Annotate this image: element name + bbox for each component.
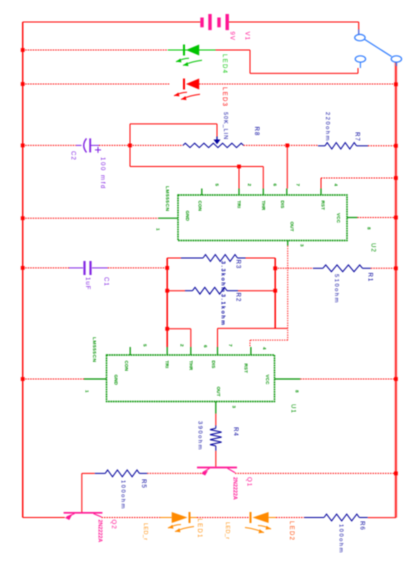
svg-text:THR: THR: [188, 361, 193, 371]
resistor R6 lead left: [304, 517, 324, 519]
resistor R4 lead top: [215, 426, 217, 429]
wire wiper loop right: [216, 124, 218, 137]
U2 pin stub THR: [262, 189, 264, 196]
svg-text:LED1: LED1: [196, 519, 202, 539]
svg-text:R5: R5: [140, 479, 147, 489]
svg-text:Q1: Q1: [245, 477, 252, 487]
resistor R6 lead right: [359, 517, 368, 519]
svg-text:R7: R7: [353, 132, 360, 142]
U2 pin number 7: [295, 184, 300, 187]
svg-text:510ohm: 510ohm: [333, 274, 339, 304]
U2 pin stub RST: [320, 189, 322, 196]
U1 pin label RST: [244, 364, 249, 374]
junction THR branch: [165, 327, 169, 331]
wire R5 to Q2 corner: [82, 472, 95, 474]
resistor R4 lead bottom: [215, 446, 217, 451]
wire LED4 to switch seg2: [249, 50, 251, 73]
svg-text:R2: R2: [234, 293, 241, 303]
U1 pin stub CON: [129, 347, 131, 355]
resistor R3 lead right: [238, 257, 246, 259]
svg-text:R3: R3: [234, 260, 241, 270]
svg-text:LED_r: LED_r: [224, 522, 230, 539]
wire Q1 collector to right bus: [235, 472, 396, 474]
wire U1 DIS branch riser: [217, 328, 219, 347]
wire R1 to right bus: [371, 267, 396, 269]
U2 refdes label U2: [369, 243, 376, 253]
junction bus-C1: [21, 266, 25, 270]
resistor R5 refdes label R5: [140, 479, 147, 489]
svg-text:2: 2: [247, 184, 252, 187]
wire right bus glow: [394, 62, 397, 518]
wire LED2 to R6: [276, 517, 304, 519]
resistor R2 value label 3.1kohm: [220, 294, 226, 326]
svg-text:DIS: DIS: [280, 201, 285, 209]
resistor R2 lead right: [227, 290, 238, 292]
svg-text:R1: R1: [366, 273, 373, 283]
wire R6 to right bus corner: [368, 517, 396, 519]
resistor R1 body: [323, 265, 363, 272]
U2 GND pin stub: [158, 217, 178, 219]
svg-text:LED2: LED2: [288, 521, 294, 541]
junction bus-U2 GND: [21, 216, 25, 220]
transistor Q2 model label 2N2222A: [97, 520, 103, 543]
junction R1-right bus: [394, 266, 398, 270]
resistor R5 value label 100ohm: [120, 480, 126, 510]
capacitor C2 refdes label C2: [69, 151, 76, 161]
wire C1 row from bus: [23, 267, 69, 269]
U2 pin number 6: [273, 184, 278, 187]
capacitor C1 value label 1uF: [84, 277, 91, 290]
op-amp/timer U1 LM555CN box: [107, 355, 275, 402]
svg-text:1: 1: [85, 390, 90, 393]
potentiometer R8 refdes label R8: [253, 127, 260, 137]
wire U2 RST to right bus: [321, 177, 396, 179]
wire R3 left: [167, 257, 181, 259]
junction R2-right rail: [273, 289, 277, 293]
svg-text:U1: U1: [289, 404, 296, 414]
wire LED3 row from bus: [23, 83, 170, 85]
LED D1 (orange): [168, 512, 194, 532]
resistor R1 value label 510ohm: [333, 274, 339, 304]
wire C2 to pot node: [99, 144, 130, 146]
U2 pin label GND: [185, 211, 190, 222]
wire left rail: [166, 258, 168, 347]
junction bus-LED4: [21, 48, 25, 52]
junction R7-right bus: [394, 144, 398, 148]
wire pot to DIS node: [244, 144, 319, 146]
wire RST drop: [249, 340, 251, 347]
svg-text:8: 8: [367, 227, 372, 230]
wire Q1 emitter to R5: [147, 472, 202, 474]
wire LED4 to switch seg4: [357, 68, 359, 73]
U1 part label LM555CN: [91, 337, 97, 362]
U1 GND pin stub: [84, 378, 107, 380]
resistor R2 body: [193, 287, 228, 294]
resistor R5 lead left: [95, 472, 106, 474]
wire U2 RST riser: [320, 178, 322, 189]
U2 pin label TRI: [236, 201, 241, 209]
junction U1 VCC-right bus: [394, 377, 398, 381]
U2 pin label OUT: [290, 222, 295, 232]
svg-text:LM555CN: LM555CN: [91, 337, 97, 362]
op-amp/timer U2 LM555CN box: [178, 195, 347, 241]
potentiometer R8 body: [183, 143, 244, 147]
wire TRI-THR feed: [130, 166, 263, 168]
U1 pin number 7: [228, 344, 233, 347]
resistor R7 lead left: [318, 145, 325, 147]
svg-text:100 mfd: 100 mfd: [99, 157, 106, 190]
svg-text:THR: THR: [261, 201, 266, 211]
LED D2 lead right: [269, 517, 276, 519]
U2 pin label THR: [261, 201, 266, 211]
potentiometer R8 model label 50K_LIN: [222, 112, 228, 140]
U2 pin label CON: [198, 201, 203, 212]
U1 OUT pin stub: [215, 402, 217, 414]
U1 pin number 6: [203, 345, 208, 348]
svg-text:6: 6: [203, 345, 208, 348]
U1 pin label DIS: [211, 361, 216, 369]
U1 VCC pin stub: [275, 378, 301, 380]
svg-text:RST: RST: [320, 201, 325, 211]
U1 pin number 2: [180, 344, 185, 347]
U2 pin number 5: [215, 184, 220, 187]
U1 pin number 1: [85, 390, 90, 393]
resistor R6 refdes label R6: [358, 521, 365, 531]
svg-text:4: 4: [334, 184, 339, 187]
resistor R5 lead right: [139, 472, 147, 474]
resistor R1 refdes label R1: [366, 273, 373, 283]
wire right rail: [274, 258, 276, 328]
LED D3 label LED3: [221, 87, 227, 107]
svg-text:5: 5: [143, 344, 148, 347]
wire bottom left corner: [23, 517, 65, 519]
transistor Q1 (2N2222A): [197, 468, 237, 476]
svg-text:LED3: LED3: [221, 87, 227, 107]
svg-text:VCC: VCC: [336, 213, 341, 224]
LED D1 model label: [142, 523, 148, 540]
junction R2-left rail: [165, 289, 169, 293]
resistor R7 body: [325, 143, 357, 149]
resistor R4 body: [210, 428, 222, 446]
svg-text:100ohm: 100ohm: [120, 480, 126, 510]
U1 pin number 8: [295, 390, 300, 393]
svg-text:7: 7: [295, 184, 300, 187]
resistor R5 body: [105, 470, 139, 477]
LED D1 lead right: [190, 517, 198, 519]
U2 pin stub CON: [201, 189, 203, 196]
U2 pin label DIS: [280, 201, 285, 209]
resistor R1 lead left: [313, 267, 323, 269]
resistor R6 value label 100ohm: [338, 524, 344, 554]
U1 pin stub RST: [250, 347, 252, 355]
wire R2 left: [167, 290, 185, 292]
svg-text:LM555CN: LM555CN: [164, 186, 170, 211]
svg-text:6: 6: [273, 184, 278, 187]
wire R7 to right bus: [368, 145, 396, 147]
svg-text:50K_LIN: 50K_LIN: [222, 112, 228, 140]
U2 pin stub TRI: [238, 189, 240, 196]
wire U2 GND to bus: [23, 217, 159, 219]
LED D2 (orange): [245, 512, 271, 533]
U1 pin label THR: [188, 361, 193, 371]
svg-text:5: 5: [215, 184, 220, 187]
svg-text:220ohm: 220ohm: [324, 112, 330, 142]
wire DIS riser: [286, 145, 288, 188]
resistor R2 refdes label R2: [234, 293, 241, 303]
U2 pin number 4: [334, 184, 339, 187]
svg-text:2: 2: [180, 344, 185, 347]
resistor R4 value label 390ohm: [197, 421, 203, 451]
potentiometer R8 wiper arrow: [214, 137, 221, 145]
svg-text:7: 7: [228, 344, 233, 347]
junction DIS riser: [285, 144, 289, 148]
wire C1 to left rail: [108, 267, 168, 269]
U2 part label LM555CN: [164, 186, 170, 211]
wire wiper loop left: [129, 124, 131, 145]
svg-text:GND: GND: [114, 375, 119, 386]
wire to U2 THR pin: [262, 167, 264, 189]
svg-text:100ohm: 100ohm: [338, 524, 344, 554]
junction bus-C2: [21, 144, 25, 148]
junction TRI feed: [237, 165, 241, 169]
wire R1 left: [275, 267, 313, 269]
U1 pin number 5: [143, 344, 148, 347]
resistor R3 lead left: [181, 257, 203, 259]
svg-text:C2: C2: [69, 151, 76, 161]
wire LED1 to LED2: [197, 517, 249, 519]
switch J1 throw B stub: [359, 62, 361, 68]
wire LED3 row to right bus: [199, 83, 396, 85]
switch J1 throw A circle: [355, 34, 365, 40]
U2 pin number 3: [299, 244, 304, 247]
svg-text:2N2222A: 2N2222A: [232, 477, 238, 500]
transistor Q1 model label 2N2222A: [232, 477, 238, 500]
U1 pin number 3: [232, 406, 237, 409]
wire cap node down: [129, 145, 131, 166]
wire THR branch drop: [190, 329, 192, 347]
svg-text:3: 3: [232, 406, 237, 409]
U1 pin label OUT: [216, 387, 221, 397]
wire LED4 to switch seg1: [216, 49, 251, 51]
U2 pin number 8: [367, 227, 372, 230]
svg-text:VCC: VCC: [265, 375, 270, 386]
U1 pin label GND: [114, 375, 119, 386]
LED D4 (green): [176, 45, 202, 67]
LED D1 refdes label LED1: [196, 519, 202, 539]
wire left rail THR branch: [167, 328, 191, 330]
wire U2 VCC to right bus: [357, 217, 396, 219]
U1 pin label VCC: [265, 375, 270, 386]
U1 pin number 4: [262, 347, 267, 350]
switch J1 common stub: [395, 62, 397, 66]
capacitor C1: [69, 261, 108, 275]
resistor R7 refdes label R7: [353, 132, 360, 142]
junction R1-right rail: [273, 266, 277, 270]
capacitor C1 refdes label C1: [102, 277, 109, 287]
junction bus-LED3: [21, 82, 25, 86]
svg-text:TRI: TRI: [236, 201, 241, 209]
wire right bus: [395, 62, 397, 518]
wire LED4 anode lead: [168, 49, 216, 51]
wire U1 OUT to R4: [215, 414, 217, 426]
svg-text:1uF: 1uF: [84, 277, 91, 290]
resistor R4 refdes label R4: [232, 427, 239, 437]
switch J1 throw B circle: [355, 56, 365, 62]
U2 pin label VCC: [336, 213, 341, 224]
svg-text:LED4: LED4: [221, 54, 227, 74]
U2 pin number 2: [247, 184, 252, 187]
svg-text:C1: C1: [102, 277, 109, 287]
wire U1 DIS branch horiz: [218, 327, 288, 329]
capacitor C2 (polarized 100 mfd): [76, 138, 101, 153]
resistor R7 lead right: [357, 145, 369, 147]
svg-text:4: 4: [262, 347, 267, 350]
U1 pin stub THR: [190, 347, 192, 355]
svg-text:CON: CON: [198, 201, 203, 212]
wire left bus: [22, 22, 24, 518]
switch J1 blade: [365, 40, 392, 57]
U1 pin label CON: [124, 361, 129, 372]
svg-text:V1: V1: [243, 32, 250, 41]
U2 pin stub DIS: [286, 189, 288, 196]
junction pot-left node: [128, 144, 132, 148]
wire pot node to pot: [130, 144, 183, 146]
wire top row battery left: [23, 21, 201, 23]
battery V1 value label 9V: [228, 32, 235, 41]
wire to U2 TRI pin: [238, 167, 240, 189]
transistor Q1 refdes label Q1: [245, 477, 252, 487]
resistor R3 value label 3.3kohm: [220, 261, 226, 293]
LED D1 (orange) lead left: [160, 517, 172, 519]
wire switch feed drop: [358, 22, 360, 34]
svg-text:CON: CON: [124, 361, 129, 372]
svg-text:390ohm: 390ohm: [197, 421, 203, 451]
battery V1: [202, 14, 227, 30]
LED D2 refdes label LED2: [288, 521, 294, 541]
LED D2 model label: [224, 522, 230, 539]
LED D3 (red): [174, 79, 200, 101]
wire Q2 base riser: [81, 473, 83, 512]
transistor Q2 (2N2222A): [64, 513, 103, 520]
resistor R1 lead right: [363, 267, 371, 269]
svg-text:TRI: TRI: [165, 361, 170, 369]
junction bus-U1 GND: [21, 377, 25, 381]
junction LED3-right bus: [394, 82, 398, 86]
switch J1 throw A stub: [358, 30, 360, 35]
svg-text:1: 1: [156, 228, 161, 231]
resistor R2 lead left: [185, 290, 193, 292]
wire U1 GND to bus: [23, 378, 84, 380]
svg-text:8: 8: [295, 390, 300, 393]
svg-text:OUT: OUT: [216, 387, 221, 397]
svg-text:2N2222A: 2N2222A: [97, 520, 103, 543]
wire U1 VCC to right bus: [300, 378, 396, 380]
wire Q2 collector to LED1: [102, 517, 161, 519]
svg-text:OUT: OUT: [290, 222, 295, 232]
wire OUT-RST horiz: [250, 339, 288, 341]
wire R4 to Q1 base: [215, 451, 217, 467]
transistor Q2 refdes label Q2: [110, 520, 117, 530]
svg-text:R4: R4: [232, 427, 239, 437]
svg-text:U2: U2: [369, 243, 376, 253]
svg-text:R6: R6: [358, 521, 365, 531]
svg-text:9V: 9V: [228, 32, 235, 41]
wire top row battery right: [229, 21, 359, 23]
junction C1-left rail: [165, 266, 169, 270]
U1 refdes label U1: [289, 404, 296, 414]
U2 pin label RST: [320, 201, 325, 211]
U2 VCC pin stub: [347, 217, 357, 219]
LED D4 label LED4: [221, 54, 227, 74]
svg-text:3: 3: [299, 244, 304, 247]
wire R3 right to rail: [246, 257, 276, 259]
capacitor C2 value label 100 mfd: [99, 157, 106, 190]
junction U2 VCC-right bus: [394, 216, 398, 220]
resistor R3 refdes label R3: [234, 260, 241, 270]
resistor R3 body: [203, 255, 238, 262]
svg-text:Q2: Q2: [110, 520, 117, 530]
U2 OUT pin stub: [287, 241, 289, 246]
svg-text:RST: RST: [244, 364, 249, 374]
wire LED4 row from bus: [23, 49, 168, 51]
switch J1 common circle: [391, 56, 401, 62]
svg-text:GND: GND: [185, 211, 190, 222]
U1 pin stub TRI: [166, 347, 168, 355]
U2 pin number 1: [156, 228, 161, 231]
svg-text:3.1kohm: 3.1kohm: [220, 294, 226, 326]
wire C2 row from bus: [23, 144, 76, 146]
junction RST-right bus: [394, 176, 398, 180]
wire U2 OUT drop: [287, 246, 289, 340]
resistor R6 body: [324, 514, 359, 521]
svg-text:R8: R8: [253, 127, 260, 137]
svg-text:DIS: DIS: [211, 361, 216, 369]
wire R2 right to rail: [238, 290, 275, 292]
battery V1 refdes label V1: [243, 32, 250, 41]
wire LED4 to switch seg3: [250, 72, 358, 74]
svg-text:LED_r: LED_r: [142, 523, 148, 540]
wire wiper loop top: [130, 123, 217, 125]
U1 pin stub DIS: [217, 347, 219, 355]
junction Q1-right bus: [394, 472, 398, 476]
resistor R7 value label 220ohm: [324, 112, 330, 142]
U1 pin label TRI: [165, 361, 170, 369]
